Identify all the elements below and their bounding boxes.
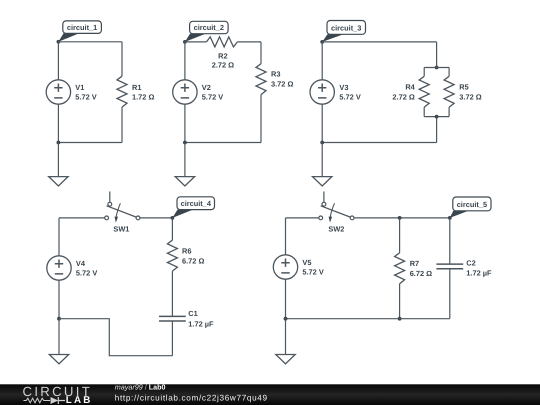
svg-text:SW1: SW1 — [113, 225, 129, 234]
junction dot parallel top — [435, 66, 439, 70]
logo diode — [51, 397, 66, 404]
svg-text:R3: R3 — [271, 69, 280, 78]
resistor R4 — [392, 76, 429, 107]
wire below V3 — [321, 104, 323, 142]
wire below R7 — [399, 284, 401, 319]
svg-text:R6: R6 — [182, 247, 191, 256]
svg-text:3.72 Ω: 3.72 Ω — [459, 93, 481, 102]
wire above R6 — [171, 218, 173, 240]
wire below V4 — [58, 280, 60, 319]
wire above R7 — [399, 218, 401, 253]
wire below C2 — [449, 269, 451, 319]
svg-text:circuit_3: circuit_3 — [331, 23, 361, 32]
svg-text:SW2: SW2 — [328, 225, 344, 234]
svg-text:http://circuitlab.com/c22j36w7: http://circuitlab.com/c22j36w77qu49 — [115, 393, 268, 402]
capacitor C1 — [159, 309, 214, 328]
svg-text:circuit_1: circuit_1 — [67, 23, 97, 32]
wire top-right circuit 2 — [237, 41, 261, 43]
svg-text:1.72 Ω: 1.72 Ω — [132, 93, 154, 102]
junction dot circuit 4 bottom-left — [57, 317, 61, 321]
svg-text:R5: R5 — [459, 83, 468, 92]
wire to ground circuit 4 — [58, 319, 60, 355]
svg-text:1.72 µF: 1.72 µF — [466, 269, 492, 278]
svg-text:6.72 Ω: 6.72 Ω — [410, 269, 432, 278]
svg-text:circuit_2: circuit_2 — [194, 23, 224, 32]
svg-text:1.72 µF: 1.72 µF — [188, 319, 214, 328]
svg-text:2.72 Ω: 2.72 Ω — [392, 93, 414, 102]
wire above R3 — [260, 42, 262, 64]
wire left branch bottom stub — [423, 107, 425, 116]
svg-text:C1: C1 — [188, 309, 197, 318]
resistor R2 — [207, 37, 238, 70]
svg-text:5.72 V: 5.72 V — [302, 267, 323, 276]
wire bottom circuit 3 — [322, 142, 436, 144]
svg-text:R2: R2 — [218, 52, 227, 61]
wire to ground circuit 1 — [57, 143, 59, 177]
node label circuit_1 — [58, 21, 101, 42]
svg-text:R4: R4 — [405, 83, 415, 92]
wire above parallel pair — [436, 42, 438, 68]
wire branch top — [424, 67, 449, 69]
junction dot parallel bottom — [435, 115, 439, 119]
switch SW1 — [105, 192, 140, 234]
wire to ground circuit 2 — [184, 143, 186, 177]
junction dot circuit 3 bottom — [320, 141, 324, 145]
ground circuit 3 — [313, 177, 332, 186]
svg-text:V3: V3 — [339, 83, 348, 92]
wire right branch bottom stub — [448, 107, 450, 116]
wire switch to node circuit 4 — [140, 217, 173, 219]
svg-text:3.72 Ω: 3.72 Ω — [271, 80, 293, 89]
voltage source V4 — [47, 256, 98, 280]
node label circuit_4 — [172, 197, 214, 218]
node label circuit_2 — [185, 21, 228, 42]
wire left circuit 3 — [321, 42, 323, 80]
wire left branch top stub — [423, 68, 425, 77]
wire bottom circuit 2 — [185, 142, 261, 144]
wire top-left circuit 2 — [185, 41, 207, 43]
svg-text:C2: C2 — [466, 258, 475, 267]
ground circuit 4 — [49, 355, 68, 364]
voltage source V2 — [173, 80, 224, 104]
wire bottom circuit 5 — [286, 318, 450, 320]
junction dot circuit 2 bottom — [183, 141, 187, 145]
junction dot circuit 1 bottom — [57, 141, 61, 145]
wire to ground circuit 5 — [285, 319, 287, 355]
resistor R5 — [444, 76, 482, 107]
wire left circuit 4 — [58, 218, 60, 256]
wire below V2 — [184, 104, 186, 142]
voltage source V3 — [310, 80, 361, 104]
wire above R1 — [121, 42, 123, 76]
junction node circuit_1 — [57, 40, 61, 44]
svg-text:mayar99 / Lab0: mayar99 / Lab0 — [115, 383, 166, 392]
wire top circuit 3 — [322, 41, 436, 43]
wire to ground circuit 3 — [321, 143, 323, 177]
voltage source V1 — [46, 80, 97, 104]
wire below parallel pair — [436, 117, 438, 143]
voltage source V5 — [273, 255, 324, 279]
svg-text:5.72 V: 5.72 V — [75, 93, 96, 102]
node label circuit_5 — [450, 197, 491, 218]
wire below R3 — [260, 95, 262, 143]
svg-text:V2: V2 — [202, 83, 211, 92]
wire below C1 — [171, 321, 173, 356]
svg-text:V5: V5 — [302, 258, 311, 267]
wire above C2 — [449, 218, 451, 264]
svg-text:2.72 Ω: 2.72 Ω — [212, 61, 234, 70]
wire left circuit 1 — [57, 42, 59, 80]
resistor R3 — [256, 64, 293, 95]
wire below V1 — [57, 104, 59, 142]
junction node circuit_5 — [448, 216, 452, 220]
node label circuit_3 — [322, 21, 365, 42]
wire bottom circuit 1 — [58, 142, 122, 144]
resistor R7 — [395, 253, 433, 284]
wire top-left circuit 5 — [286, 217, 319, 219]
svg-text:LAB: LAB — [66, 395, 93, 405]
logo resistor squiggle — [24, 398, 51, 403]
wire bottom jog circuit 4 — [59, 319, 172, 356]
footer bar — [0, 384, 540, 405]
svg-text:V4: V4 — [76, 259, 86, 268]
junction node circuit_2 — [183, 40, 187, 44]
ground circuit 5 — [276, 355, 295, 364]
wire top-left circuit 4 — [59, 217, 105, 219]
svg-text:R1: R1 — [132, 83, 141, 92]
wire below R1 — [121, 107, 123, 142]
wire R6 to C1 — [171, 271, 173, 316]
resistor R6 — [167, 240, 204, 271]
svg-text:circuit_4: circuit_4 — [181, 199, 212, 208]
svg-text:R7: R7 — [410, 259, 419, 268]
ground circuit 2 — [175, 177, 194, 186]
junction node circuit_4 — [171, 216, 175, 220]
junction dot circuit 5 bottom-left — [284, 317, 288, 321]
wire right branch top stub — [448, 68, 450, 77]
junction dot R7 top — [398, 216, 402, 220]
resistor R1 — [117, 76, 154, 107]
wire switch to C2 branch circuit 5 — [354, 217, 450, 219]
ground circuit 1 — [49, 177, 68, 186]
wire left circuit 2 — [184, 42, 186, 80]
svg-text:circuit_5: circuit_5 — [457, 200, 487, 209]
junction node circuit_3 — [320, 40, 324, 44]
svg-text:V1: V1 — [75, 83, 84, 92]
wire top circuit 1 — [58, 41, 122, 43]
junction dot R7 bottom — [398, 317, 402, 321]
wire left circuit 5 — [285, 218, 287, 255]
svg-text:6.72 Ω: 6.72 Ω — [182, 256, 204, 265]
wire below V5 — [285, 279, 287, 319]
svg-text:5.72 V: 5.72 V — [339, 93, 360, 102]
wire branch bottom — [424, 116, 449, 118]
switch SW2 — [319, 192, 354, 234]
capacitor C2 — [436, 258, 492, 277]
svg-text:5.72 V: 5.72 V — [202, 93, 223, 102]
svg-text:5.72 V: 5.72 V — [76, 268, 97, 277]
